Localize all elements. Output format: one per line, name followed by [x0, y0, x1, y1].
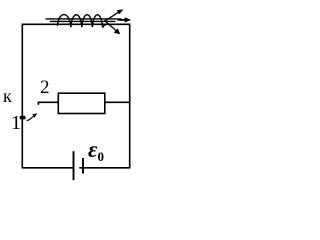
switch contact 1 tick: [20, 116, 26, 120]
wire left vertical: [21, 24, 23, 169]
switch contact 2 stub hook: [37, 102, 39, 105]
core rod bottom line: [50, 20, 116, 22]
battery plate short (negative): [82, 158, 84, 174]
wire top horizontal: [22, 23, 131, 25]
label switch к: [3, 87, 12, 105]
switch lever arrow: [27, 113, 38, 120]
wire resistor to right wire: [105, 101, 131, 103]
arrow up-right (core pull-out): [106, 9, 124, 20]
core rod top line: [46, 18, 122, 20]
wire bottom right (from battery): [79, 167, 130, 169]
label contact 1: [11, 113, 21, 133]
wire right vertical: [129, 24, 131, 169]
wire contact 2 to resistor: [38, 101, 59, 103]
arrow right (core pull-out): [118, 17, 132, 22]
battery plate long (positive): [73, 151, 75, 180]
wire bottom left (to battery): [22, 167, 74, 169]
label contact 2: [40, 78, 50, 97]
inductor L winding: [57, 15, 107, 28]
resistor R body: [58, 93, 105, 113]
arrow down-right (core push-in): [104, 20, 120, 34]
label EMF e0: [88, 138, 104, 163]
